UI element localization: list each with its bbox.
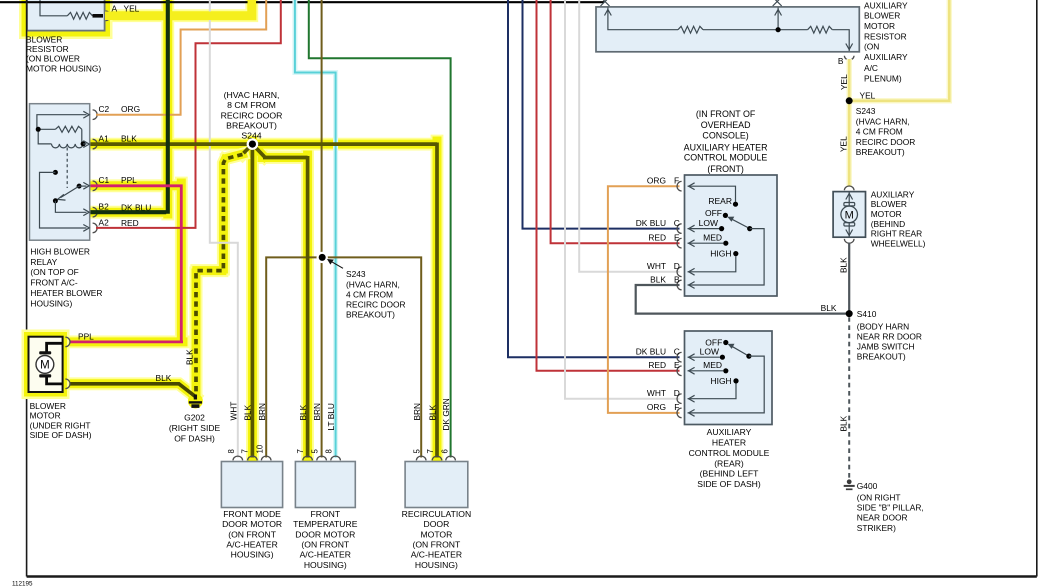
svg-text:BREAKOUT): BREAKOUT) <box>856 147 905 157</box>
svg-text:LOW: LOW <box>700 347 719 357</box>
wire PPL (highlighted) relay C1 to blower motor <box>64 184 183 342</box>
svg-text:BLK: BLK <box>121 133 137 143</box>
svg-text:NEAR DOOR: NEAR DOOR <box>857 513 908 523</box>
recirculation door motor label <box>402 509 472 570</box>
rear module switch internals <box>688 337 765 416</box>
front module pin F <box>647 176 682 192</box>
svg-text:AUXILIARY HEATER: AUXILIARY HEATER <box>684 142 768 152</box>
svg-text:8: 8 <box>325 449 334 453</box>
relay pin C2 <box>93 104 140 120</box>
front module pin E <box>648 233 681 249</box>
svg-text:4 CM FROM: 4 CM FROM <box>346 289 393 299</box>
wire highlight glow <box>64 0 437 457</box>
svg-text:WHT: WHT <box>647 261 666 271</box>
relay armature dashed link <box>66 148 68 189</box>
aux blower motor label <box>871 189 926 248</box>
svg-text:7: 7 <box>296 449 305 453</box>
front module box <box>685 175 778 296</box>
svg-text:WHT: WHT <box>229 402 239 421</box>
wire ORG from relay C2 to top edge <box>96 0 266 115</box>
svg-text:AUXILIARY: AUXILIARY <box>707 427 752 437</box>
blower motor M1 (under right side of dash) <box>29 337 63 392</box>
relay pin A2 <box>93 217 139 232</box>
recirculation door motor pins 5,7,6 <box>416 456 455 460</box>
svg-text:MOTOR: MOTOR <box>30 411 61 421</box>
svg-text:REAR: REAR <box>708 196 732 206</box>
svg-text:D: D <box>674 388 680 398</box>
svg-text:AUXILIARY: AUXILIARY <box>864 0 908 10</box>
S243 right label <box>856 106 916 157</box>
svg-text:BLK: BLK <box>185 349 195 365</box>
wire YEL aux resistor B to S243 and aux blower motor <box>849 0 949 186</box>
wire BLK branch S244 to front temperature pin 7 <box>252 144 307 457</box>
wire BLK front module B to S410 <box>636 285 846 314</box>
svg-text:PPL: PPL <box>121 175 137 185</box>
svg-text:BREAKOUT): BREAKOUT) <box>857 352 906 362</box>
blower resistor R (on blower motor housing) <box>27 0 105 31</box>
svg-text:HIGH: HIGH <box>710 249 731 259</box>
svg-text:BLK: BLK <box>298 404 308 420</box>
auxiliary blower motor box <box>833 192 865 238</box>
svg-text:A/C-HEATER: A/C-HEATER <box>226 540 277 550</box>
svg-text:RECIRCULATION: RECIRCULATION <box>402 509 472 519</box>
svg-text:5: 5 <box>412 449 421 454</box>
svg-text:C: C <box>674 347 680 357</box>
svg-text:SIDE OF DASH): SIDE OF DASH) <box>30 430 92 440</box>
svg-text:SIDE "B" PILLAR,: SIDE "B" PILLAR, <box>857 502 924 512</box>
svg-text:DK BLU: DK BLU <box>636 218 666 228</box>
svg-text:(IN FRONT OF: (IN FRONT OF <box>696 109 756 119</box>
blower resistor label <box>26 34 101 73</box>
recirculation door motor box <box>405 462 468 508</box>
svg-text:BLOWER: BLOWER <box>30 401 66 411</box>
wire BLK aux motor to S410 <box>848 243 850 314</box>
svg-text:7: 7 <box>426 449 435 453</box>
svg-text:WHEELWELL): WHEELWELL) <box>871 239 926 249</box>
front mode wire labels <box>229 402 267 421</box>
svg-text:CONSOLE): CONSOLE) <box>702 131 748 141</box>
svg-text:BRN: BRN <box>257 403 267 421</box>
front module switch internals <box>688 183 765 289</box>
svg-text:ORG: ORG <box>121 104 140 114</box>
aux motor pin bottom <box>844 239 854 243</box>
aux blower motor M2 internals <box>841 192 858 237</box>
svg-text:MOTOR: MOTOR <box>420 529 452 539</box>
svg-text:(ON RIGHT: (ON RIGHT <box>857 492 901 502</box>
svg-text:HIGH BLOWER: HIGH BLOWER <box>30 246 90 256</box>
svg-text:F: F <box>674 402 679 412</box>
svg-text:BREAKOUT): BREAKOUT) <box>226 121 277 131</box>
svg-text:B: B <box>674 274 680 284</box>
frame right border <box>1036 0 1038 577</box>
svg-text:(ON BLOWER: (ON BLOWER <box>26 54 80 64</box>
auxiliary blower motor resistor box <box>596 7 859 52</box>
svg-text:HEATER: HEATER <box>712 438 746 448</box>
svg-text:C: C <box>674 218 680 228</box>
svg-text:RIGHT REAR: RIGHT REAR <box>871 229 923 239</box>
svg-text:(ON TOP OF: (ON TOP OF <box>30 267 78 277</box>
svg-text:(ON FRONT: (ON FRONT <box>228 529 276 539</box>
svg-text:RED: RED <box>121 218 139 228</box>
YEL labels <box>839 74 876 152</box>
svg-text:RELAY: RELAY <box>30 257 57 267</box>
svg-text:A/C-HEATER: A/C-HEATER <box>411 550 462 560</box>
svg-text:RECIRC DOOR: RECIRC DOOR <box>346 300 406 310</box>
svg-text:SIDE OF DASH): SIDE OF DASH) <box>697 479 761 489</box>
svg-text:A/C: A/C <box>864 63 878 73</box>
svg-text:G202: G202 <box>184 413 205 423</box>
svg-text:DOOR MOTOR: DOOR MOTOR <box>222 519 282 529</box>
relay pin B2 <box>93 202 152 217</box>
front mode door motor pins 8,7,10 <box>233 456 271 460</box>
svg-text:RESISTOR: RESISTOR <box>864 32 907 42</box>
blower motor box glow <box>22 330 70 400</box>
front module pin C <box>636 218 682 234</box>
auxiliary heater control module (front) header <box>684 109 768 174</box>
svg-text:G400: G400 <box>857 481 878 491</box>
svg-text:HEATER BLOWER: HEATER BLOWER <box>30 288 102 298</box>
svg-text:(HVAC HARN,: (HVAC HARN, <box>856 116 910 126</box>
recirculation wire labels <box>412 398 451 430</box>
svg-text:M: M <box>845 210 854 222</box>
wire DK BLU (highlighted) relay B2 to top edge <box>91 0 168 214</box>
svg-text:B: B <box>838 56 844 66</box>
front module pin B <box>650 274 681 290</box>
svg-text:OFF: OFF <box>705 208 722 218</box>
svg-text:STRIKER): STRIKER) <box>857 523 896 533</box>
svg-text:AUXILIARY: AUXILIARY <box>871 189 915 199</box>
wire RED to rear module E <box>537 0 680 371</box>
svg-text:S243: S243 <box>346 269 366 279</box>
svg-text:BREAKOUT): BREAKOUT) <box>346 310 395 320</box>
S243 pointer arrow <box>329 260 343 268</box>
ground G202 <box>189 395 202 408</box>
svg-text:CONTROL MODULE: CONTROL MODULE <box>684 153 768 163</box>
rear module pin E <box>648 360 681 376</box>
wire BRN splice run S243 to pins 10 and 5 <box>266 257 421 457</box>
svg-text:BLK: BLK <box>650 274 666 284</box>
svg-text:(HVAC HARN,: (HVAC HARN, <box>224 90 280 100</box>
relay pin C1 <box>93 175 138 191</box>
svg-text:MOTOR: MOTOR <box>864 21 895 31</box>
wire RED to front module E <box>551 0 680 243</box>
svg-text:B2: B2 <box>99 202 110 212</box>
svg-text:DOOR: DOOR <box>424 519 450 529</box>
svg-text:FRONT MODE: FRONT MODE <box>223 509 281 519</box>
svg-text:WHT: WHT <box>647 388 666 398</box>
blower motor label <box>30 401 92 440</box>
wire YEL (highlighted) from pin A up to top edge <box>105 0 252 16</box>
front temperature wire labels <box>298 403 336 431</box>
svg-text:(ON FRONT: (ON FRONT <box>413 540 461 550</box>
svg-text:BLOWER: BLOWER <box>871 199 907 209</box>
svg-text:7: 7 <box>241 449 250 453</box>
svg-text:A1: A1 <box>99 133 110 143</box>
wire BLK dashed S410 to G400 <box>848 317 850 479</box>
aux resistor internal network <box>605 8 853 52</box>
blower motor pin PPL <box>65 331 94 346</box>
relay coil <box>36 111 90 148</box>
svg-text:6: 6 <box>440 449 449 453</box>
ground G400 <box>844 479 855 489</box>
wire DK BLU to rear module C <box>508 0 680 357</box>
svg-text:E: E <box>674 233 680 243</box>
svg-text:ORG: ORG <box>647 176 666 186</box>
front temperature door motor label <box>293 509 358 570</box>
svg-text:RED: RED <box>648 360 666 370</box>
svg-text:BRN: BRN <box>312 403 322 421</box>
svg-text:(BEHIND LEFT: (BEHIND LEFT <box>700 469 759 479</box>
svg-text:(BEHIND: (BEHIND <box>871 219 905 229</box>
rear module label <box>689 427 770 489</box>
relay label <box>30 246 102 308</box>
blower resistor box glow <box>19 0 113 39</box>
svg-text:CONTROL MODULE: CONTROL MODULE <box>689 448 770 458</box>
rear module pin D <box>647 388 682 404</box>
svg-text:E: E <box>674 360 680 370</box>
S410 label <box>857 309 922 362</box>
rear module box <box>685 331 773 425</box>
svg-text:(UNDER RIGHT: (UNDER RIGHT <box>30 420 91 430</box>
front mode door motor box <box>221 462 282 508</box>
svg-text:BRN: BRN <box>412 403 422 421</box>
rear module pin F <box>647 402 682 418</box>
svg-text:OF DASH): OF DASH) <box>174 434 215 444</box>
wire ORG linking front F and rear F <box>608 186 680 413</box>
svg-text:YEL: YEL <box>839 74 849 90</box>
svg-text:BLOWER: BLOWER <box>26 34 62 44</box>
svg-text:LOW: LOW <box>699 218 718 228</box>
svg-text:4 CM FROM: 4 CM FROM <box>856 127 903 137</box>
svg-text:A/C-HEATER: A/C-HEATER <box>300 550 351 560</box>
svg-text:RED: RED <box>648 233 666 243</box>
svg-text:112195: 112195 <box>12 581 33 588</box>
svg-text:(FRONT): (FRONT) <box>707 164 744 174</box>
svg-text:S243: S243 <box>856 106 876 116</box>
svg-text:F: F <box>674 176 679 186</box>
wire BRN trunk from top edge through S243 <box>321 0 323 458</box>
pin A of blower resistor <box>106 3 140 20</box>
relay switch <box>40 170 90 231</box>
S243 label <box>346 269 406 319</box>
svg-text:(BODY HARN: (BODY HARN <box>857 321 909 331</box>
svg-text:S244: S244 <box>241 130 261 140</box>
svg-text:BLK: BLK <box>821 303 837 313</box>
svg-text:C2: C2 <box>99 104 110 114</box>
wire WHT to front module D <box>579 0 679 272</box>
svg-text:RESISTOR: RESISTOR <box>26 44 69 54</box>
splice S243 right <box>846 97 853 104</box>
svg-text:NEAR RR DOOR: NEAR RR DOOR <box>857 332 922 342</box>
wire RED from relay A2 to top edge <box>96 0 281 228</box>
G202 label <box>169 413 221 444</box>
svg-text:HOUSING): HOUSING) <box>30 298 72 308</box>
svg-text:S410: S410 <box>857 309 877 319</box>
wire WHT from top edge to front mode door motor pin 8 <box>210 0 238 458</box>
G400 label <box>857 481 924 533</box>
svg-text:(HVAC HARN,: (HVAC HARN, <box>346 279 400 289</box>
front mode door motor label <box>222 509 282 560</box>
svg-text:BLK: BLK <box>243 404 253 420</box>
svg-text:HOUSING): HOUSING) <box>231 550 274 560</box>
svg-text:MOTOR HOUSING): MOTOR HOUSING) <box>26 63 101 73</box>
wire DK GRN from top edge to recirculation door motor pin 6 <box>309 0 451 458</box>
svg-text:MOTOR: MOTOR <box>871 209 902 219</box>
svg-text:OVERHEAD: OVERHEAD <box>701 120 751 130</box>
relay K high-blower: box <box>30 104 90 241</box>
rear module pin C <box>636 347 682 363</box>
svg-text:PLENUM): PLENUM) <box>864 74 902 84</box>
front temperature door motor pins 7,5,8 <box>303 456 341 460</box>
aux motor pin top <box>844 186 854 190</box>
aux resistor pin X marks <box>601 0 782 6</box>
svg-text:BLK: BLK <box>428 404 438 420</box>
svg-text:MED: MED <box>703 360 722 370</box>
wire DK BLU to front module C <box>523 0 680 229</box>
svg-text:C1: C1 <box>99 175 110 185</box>
front module pin D <box>647 261 682 277</box>
svg-text:FRONT A/C-: FRONT A/C- <box>30 278 78 288</box>
svg-text:5: 5 <box>311 449 320 454</box>
svg-text:(ON FRONT: (ON FRONT <box>301 540 349 550</box>
splice S243 <box>317 252 328 263</box>
S244 label <box>221 90 283 140</box>
svg-text:10: 10 <box>255 444 264 453</box>
svg-text:ORG: ORG <box>647 402 666 412</box>
svg-text:DOOR MOTOR: DOOR MOTOR <box>295 529 355 539</box>
svg-text:(RIGHT SIDE: (RIGHT SIDE <box>169 423 221 433</box>
svg-text:YEL: YEL <box>860 90 876 100</box>
svg-text:AUXILIARY: AUXILIARY <box>864 52 908 62</box>
aux resistor pin B <box>838 56 854 66</box>
svg-text:TEMPERATURE: TEMPERATURE <box>293 519 358 529</box>
svg-text:DK BLU: DK BLU <box>636 347 666 357</box>
relay pin A1 <box>93 133 138 149</box>
svg-text:DK GRN: DK GRN <box>441 398 451 430</box>
svg-text:JAMB SWITCH: JAMB SWITCH <box>857 342 915 352</box>
svg-text:8: 8 <box>227 449 236 453</box>
wire BLK branch S244 down to front mode pin 7 <box>251 143 255 458</box>
wire BLK dashed (highlighted) S244 to G202 <box>244 144 253 153</box>
aux resistor label <box>864 0 908 83</box>
svg-text:(REAR): (REAR) <box>714 458 744 468</box>
svg-text:BLK: BLK <box>839 257 849 273</box>
svg-text:D: D <box>674 261 680 271</box>
splice S410 <box>846 310 853 317</box>
blower motor pin BLK <box>65 373 171 389</box>
svg-text:BLOWER: BLOWER <box>864 11 900 21</box>
svg-text:8 CM FROM: 8 CM FROM <box>227 100 276 110</box>
svg-text:HOUSING): HOUSING) <box>415 560 458 570</box>
svg-text:FRONT: FRONT <box>310 509 340 519</box>
wire BLK (highlighted) blower motor to G202 <box>64 384 195 397</box>
wire LT BLU from top edge to front temperature door motor pin 8 <box>295 0 336 458</box>
wire WHT to rear module D <box>565 0 680 399</box>
svg-text:BLK: BLK <box>839 415 849 431</box>
svg-text:M: M <box>40 360 50 372</box>
front temperature door motor box <box>295 462 355 508</box>
wire (cut off at top edge) <box>0 1 604 3</box>
splice S244 <box>247 138 259 150</box>
svg-text:HOUSING): HOUSING) <box>304 560 347 570</box>
svg-text:RECIRC DOOR: RECIRC DOOR <box>856 137 916 147</box>
frame bottom border <box>27 575 1037 577</box>
svg-text:BLK: BLK <box>156 373 172 383</box>
svg-text:MED: MED <box>703 233 722 243</box>
svg-text:PPL: PPL <box>78 331 94 341</box>
svg-text:RECIRC DOOR: RECIRC DOOR <box>221 110 283 120</box>
svg-text:A2: A2 <box>99 217 110 227</box>
svg-text:HIGH: HIGH <box>710 376 731 386</box>
frame left border <box>26 0 28 577</box>
svg-text:YEL: YEL <box>839 136 849 152</box>
wire BLK (highlighted) main run A1 through S244 to recirculation pin 7 <box>91 143 438 458</box>
svg-text:LT BLU: LT BLU <box>326 403 336 430</box>
svg-text:(ON: (ON <box>864 42 879 52</box>
